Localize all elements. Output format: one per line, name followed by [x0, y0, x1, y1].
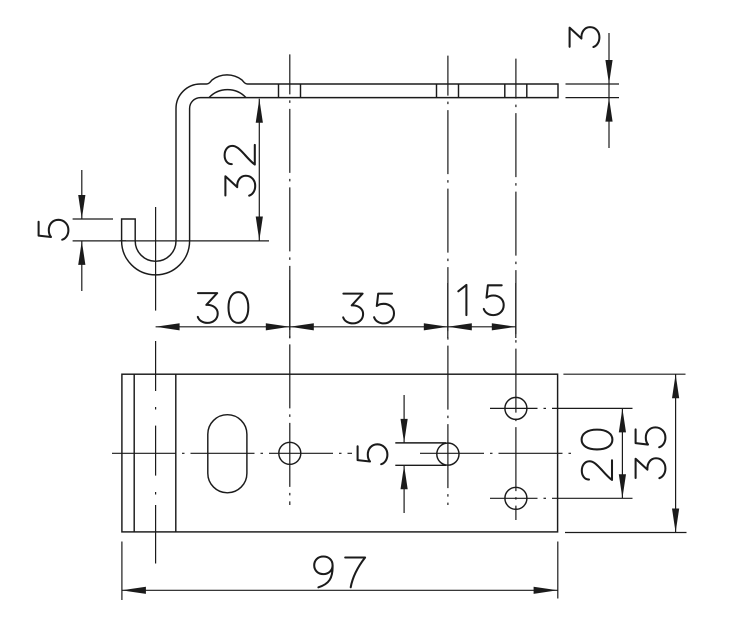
hole edge lines in side view: [278, 84, 280, 98]
text 97: [314, 557, 332, 588]
text 15: [458, 285, 466, 315]
dim 97: [121, 542, 123, 601]
obround slot: [208, 415, 247, 493]
centerline plan horizontal: [112, 452, 352, 454]
dim 35 vertical: [563, 373, 685, 375]
centerline x=290: [289, 54, 291, 505]
hole left circle: [279, 442, 301, 464]
centerline x=516: [515, 59, 517, 520]
text 30: [198, 293, 218, 323]
dim row 30 35 15: [156, 326, 516, 328]
bend line 1: [133, 374, 135, 532]
bend line 2: [175, 374, 177, 532]
centerline right circle top: [490, 407, 538, 409]
bracket side-view outline: [122, 75, 558, 275]
text 35: [343, 294, 363, 324]
dim 32: [258, 99, 260, 241]
dim 5 slot: [403, 395, 405, 443]
centerline x=448: [447, 56, 449, 505]
middle hole circle: [437, 443, 459, 465]
plan view plate outline: [122, 374, 558, 532]
middle slot lines: [395, 442, 446, 444]
right top circle: [505, 397, 527, 419]
dim 20: [621, 408, 623, 498]
embossed dome inner arc: [209, 90, 246, 98]
dim 3 thickness: [566, 83, 620, 85]
centerline hook horizontal: [120, 240, 269, 242]
centerline right circle bottom: [490, 497, 538, 499]
dim 5 hook: [73, 218, 113, 220]
right bottom circle: [505, 487, 527, 509]
centerline hook vertical: [155, 207, 157, 311]
